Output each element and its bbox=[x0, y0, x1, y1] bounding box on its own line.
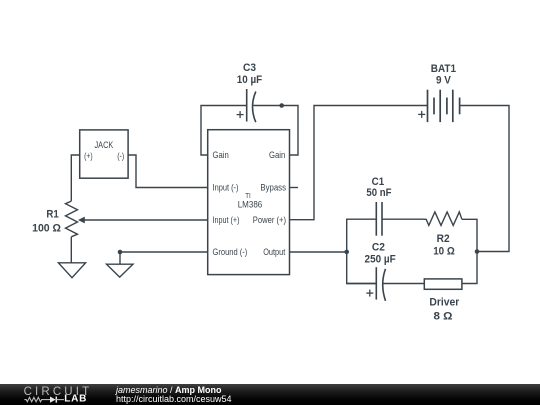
svg-text:LM386: LM386 bbox=[238, 200, 263, 210]
C3 polarity plus sign bbox=[237, 111, 244, 118]
op-amp IC U1 LM386 body bbox=[208, 130, 290, 275]
wire: C3 right plate to pin8 Gain(right) bbox=[253, 106, 298, 156]
svg-text:Output: Output bbox=[263, 247, 285, 257]
wire: R1 bottom to ground bbox=[70, 237, 72, 263]
svg-text:Input (+): Input (+) bbox=[213, 215, 240, 225]
resistor R2 bbox=[425, 212, 462, 226]
label C2 value bbox=[365, 241, 396, 265]
svg-text:Power (+): Power (+) bbox=[253, 215, 286, 225]
svg-text:100 Ω: 100 Ω bbox=[32, 222, 61, 234]
component JACK body bbox=[80, 130, 128, 178]
svg-text:BAT1: BAT1 bbox=[431, 63, 456, 75]
wire: jack (-) to Input(-) pin bbox=[128, 155, 208, 188]
svg-text:R2: R2 bbox=[437, 233, 450, 245]
credit text bbox=[116, 386, 232, 405]
label R2 value bbox=[433, 233, 455, 258]
svg-text:JACK: JACK bbox=[95, 140, 114, 150]
junction dot node R bbox=[475, 249, 480, 254]
svg-text:(+): (+) bbox=[84, 151, 93, 161]
ground symbol under Ground(-) bbox=[107, 264, 134, 277]
battery polarity plus sign bbox=[418, 111, 425, 118]
potentiometer R1 bbox=[66, 201, 208, 237]
junction dot node L bbox=[344, 250, 349, 255]
wire: battery positive feed down to Power(+) pin bbox=[290, 106, 428, 220]
footer credit bar bbox=[0, 384, 540, 405]
wire: node L bottom to C2 bbox=[347, 283, 377, 285]
capacitor C2 bbox=[376, 267, 424, 301]
C2 polarity plus sign bbox=[366, 290, 373, 297]
label BAT1 value bbox=[431, 63, 456, 87]
node L left rail bbox=[347, 219, 376, 283]
ground symbol under R1 bbox=[58, 263, 85, 278]
CircuitLab logo bbox=[0, 383, 100, 405]
label R1 value bbox=[32, 209, 61, 235]
wire: C1 to R2 bbox=[382, 218, 425, 220]
svg-text:9 V: 9 V bbox=[436, 75, 451, 87]
svg-text:Gain: Gain bbox=[213, 150, 229, 160]
U1 name labels TI LM386 bbox=[238, 191, 263, 210]
capacitor C1 bbox=[376, 202, 382, 236]
junction dot ground net bbox=[118, 250, 123, 255]
pin stub Bypass bbox=[290, 187, 299, 189]
wire: jack (+) down to R1 top bbox=[71, 155, 79, 201]
wire: battery negative over and down to node R bbox=[460, 106, 509, 252]
svg-text:10 µF: 10 µF bbox=[237, 74, 263, 86]
JACK pin labels bbox=[84, 140, 124, 161]
svg-text:Bypass: Bypass bbox=[260, 183, 286, 193]
svg-text:8 Ω: 8 Ω bbox=[434, 311, 453, 323]
label Driver value bbox=[429, 297, 460, 323]
wire: Output pin to node L bbox=[290, 251, 347, 253]
svg-text:10 Ω: 10 Ω bbox=[433, 245, 455, 257]
speaker Driver body bbox=[424, 279, 462, 289]
node R right rail bbox=[462, 219, 477, 283]
svg-text:C2: C2 bbox=[372, 241, 385, 253]
wire: Ground(-) pin to ground bbox=[120, 252, 208, 264]
junction dot C3/gain net bbox=[279, 103, 284, 108]
svg-text:R1: R1 bbox=[46, 209, 58, 221]
svg-text:250 µF: 250 µF bbox=[365, 254, 396, 266]
svg-text:Driver: Driver bbox=[429, 297, 460, 309]
svg-text:C1: C1 bbox=[372, 176, 385, 188]
svg-text:Input (-): Input (-) bbox=[213, 183, 239, 193]
svg-text:C3: C3 bbox=[243, 62, 256, 74]
svg-text:LAB: LAB bbox=[64, 393, 87, 404]
battery BAT1 bbox=[428, 90, 460, 122]
svg-text:50 nF: 50 nF bbox=[366, 187, 391, 199]
label C1 value bbox=[366, 176, 391, 199]
svg-text:Gain: Gain bbox=[269, 150, 285, 160]
svg-text:(-): (-) bbox=[117, 151, 124, 161]
wire: pin1 Gain(left) up and over to C3 left plate bbox=[201, 106, 246, 156]
capacitor C3 bbox=[247, 89, 256, 122]
svg-text:TI: TI bbox=[245, 191, 251, 200]
U1 pin labels bbox=[213, 150, 287, 257]
svg-text:Ground (-): Ground (-) bbox=[213, 247, 248, 257]
label C3 value bbox=[237, 62, 263, 86]
